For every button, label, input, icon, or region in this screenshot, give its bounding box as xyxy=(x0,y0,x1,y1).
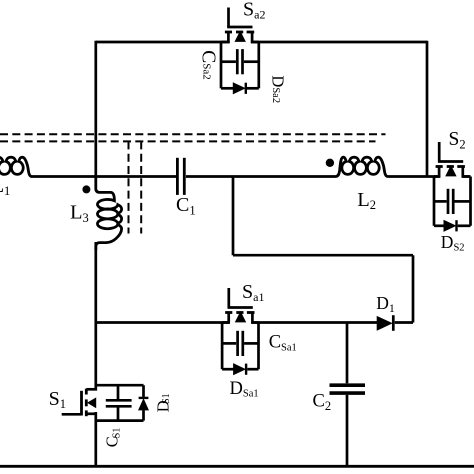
svg-text:CS1: CS1 xyxy=(102,428,122,448)
svg-text:L2: L2 xyxy=(357,189,376,212)
svg-text:Sa1: Sa1 xyxy=(242,281,264,304)
svg-text:D1: D1 xyxy=(376,293,395,315)
svg-text:CSa2: CSa2 xyxy=(197,50,218,80)
svg-text:C1: C1 xyxy=(176,194,196,217)
svg-text:S2: S2 xyxy=(449,129,466,151)
svg-text:CSa1: CSa1 xyxy=(269,333,297,354)
svg-text:DSa1: DSa1 xyxy=(230,379,259,400)
svg-text:Sa2: Sa2 xyxy=(243,0,265,22)
svg-text:L3: L3 xyxy=(70,202,89,225)
svg-text:L1: L1 xyxy=(0,175,10,198)
svg-text:DSa2: DSa2 xyxy=(269,75,288,103)
svg-text:DS2: DS2 xyxy=(441,232,465,254)
svg-text:DS1: DS1 xyxy=(154,393,173,412)
svg-text:C2: C2 xyxy=(313,392,332,413)
svg-text:S1: S1 xyxy=(49,388,66,411)
